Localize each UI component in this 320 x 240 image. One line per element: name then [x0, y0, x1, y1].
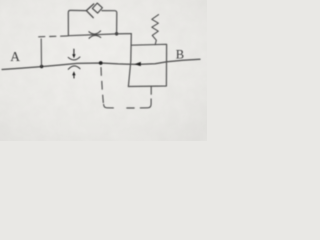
throttle lower adjust arrow	[73, 75, 75, 78]
svg-text:A: A	[10, 49, 20, 64]
pressure compensator valve body	[128, 44, 166, 86]
flow arrow inside valve	[134, 62, 141, 66]
svg-text:B: B	[176, 47, 184, 61]
check valve poppet (diamond)	[92, 3, 102, 13]
check valve seat	[86, 4, 94, 18]
spring on valve top	[152, 15, 159, 45]
adjustable throttle on main line: lower arc	[68, 66, 80, 69]
throttle upper adjust arrow	[73, 49, 75, 54]
pilot dashed center vertical	[101, 68, 103, 103]
pilot dashed bottom horizontal	[127, 107, 134, 109]
wire main line A to B	[2, 59, 200, 69]
node J3 loop bottom junction	[115, 32, 118, 35]
pilot stub below valve	[150, 86, 152, 94]
wire left pilot riser	[40, 39, 42, 67]
node J2 center pilot tap	[99, 61, 103, 65]
wire loop to valve drop / valve left edge	[128, 34, 131, 87]
node J1 left pilot tap	[40, 65, 43, 68]
adjustable throttle on main line: upper arc	[68, 57, 80, 60]
wire bypass loop bottom edge	[68, 34, 131, 36]
wire left pilot dashed horizontal	[39, 35, 68, 38]
throttle orifice in loop (upper arc)	[89, 31, 101, 34]
wire bypass loop top right segment and right edge	[102, 11, 117, 33]
throttle orifice in loop (lower arc)	[89, 35, 101, 38]
wire bypass loop left edge	[68, 10, 86, 35]
pilot dashed corner below valve	[140, 99, 151, 108]
pilot dashed bottom-left corner	[104, 104, 114, 108]
